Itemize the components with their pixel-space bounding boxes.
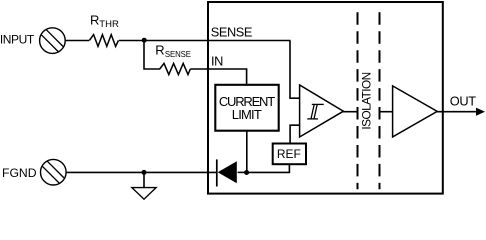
isolation barrier dashed line left <box>357 12 359 189</box>
svg-text:IN: IN <box>211 54 223 69</box>
block CURRENT LIMIT <box>215 85 278 131</box>
OUT arrowhead <box>476 108 485 116</box>
wire R_THR to node A and into box (SENSE line) <box>119 40 291 42</box>
ground <box>132 172 156 199</box>
svg-text:ISOLATION: ISOLATION <box>359 72 373 129</box>
buffer U3 <box>393 86 438 137</box>
diode D1 <box>217 159 237 186</box>
wire diode to node B <box>238 171 247 173</box>
wire FGND to diode <box>66 171 216 173</box>
resistor R_SENSE <box>160 63 191 74</box>
label R_SENSE <box>155 42 191 59</box>
node A junction dot <box>142 38 147 43</box>
wire node A down to R_SENSE <box>144 41 160 70</box>
svg-text:OUT: OUT <box>450 94 476 109</box>
svg-text:INPUT: INPUT <box>0 33 35 47</box>
terminal INPUT <box>40 28 66 54</box>
hysteresis symbol <box>307 104 323 119</box>
node B junction dot <box>244 170 249 175</box>
svg-text:SENSE: SENSE <box>211 24 252 39</box>
op-amp U2 comparator <box>300 85 344 137</box>
label R_THR <box>90 12 119 30</box>
wire CURRENT LIMIT bottom to node B <box>246 131 248 173</box>
svg-text:FGND: FGND <box>2 166 37 180</box>
wire REF top to comparator - input <box>290 125 300 143</box>
isolation barrier dashed line right <box>379 12 381 189</box>
wire SENSE down to comparator + input <box>290 41 300 99</box>
resistor R_THR <box>89 35 118 47</box>
svg-text:THR: THR <box>99 19 119 30</box>
block REF <box>273 144 306 165</box>
ground junction dot <box>142 170 147 175</box>
terminal FGND <box>41 159 67 185</box>
device box U1 <box>208 2 443 194</box>
svg-text:LIMIT: LIMIT <box>232 107 262 122</box>
wire R_SENSE to IN pin and down to current limit <box>190 69 246 86</box>
svg-text:SENSE: SENSE <box>165 50 191 59</box>
wire node B to REF bottom <box>247 164 289 172</box>
wire buffer output to OUT <box>437 111 477 113</box>
wire isolation to buffer input <box>381 111 393 113</box>
svg-text:R: R <box>90 12 99 27</box>
wire INPUT to R_THR <box>65 40 89 42</box>
svg-text:R: R <box>155 42 164 57</box>
wire comparator output to isolation <box>343 111 357 113</box>
svg-text:REF: REF <box>277 147 301 161</box>
